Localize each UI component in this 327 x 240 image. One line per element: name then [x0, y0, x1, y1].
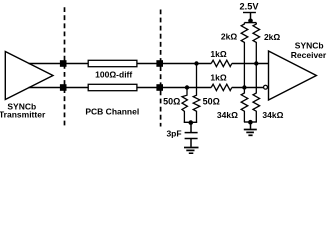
- svg-text:34kΩ: 34kΩ: [217, 110, 238, 120]
- svg-text:Receiver: Receiver: [291, 50, 327, 60]
- svg-text:100Ω-diff: 100Ω-diff: [95, 70, 132, 80]
- resistor R7 34kohm left: [241, 88, 248, 123]
- junction square top-right: [156, 60, 163, 67]
- boundary dashed line right: [160, 10, 162, 127]
- boundary dashed line left: [64, 7, 66, 125]
- svg-text:3pF: 3pF: [166, 129, 181, 139]
- node dot top line bias tap: [254, 61, 258, 65]
- ground symbol right: [244, 130, 257, 136]
- resistor R5 2kohm left: [241, 23, 248, 88]
- svg-text:SYNCb: SYNCb: [295, 41, 324, 51]
- resistor R1 50ohm left: [182, 88, 187, 123]
- capacitor C1 plate 1: [185, 132, 198, 134]
- resistor R6 2kohm right: [253, 23, 260, 64]
- transmitter U1 triangle: [5, 52, 53, 100]
- svg-text:2kΩ: 2kΩ: [264, 32, 280, 42]
- node dot below rail: [248, 19, 253, 24]
- wire bottom line segment 1: [29, 87, 89, 89]
- svg-text:50Ω: 50Ω: [203, 97, 220, 107]
- resistor R2 50ohm right: [193, 64, 200, 123]
- node dot bottom line 50ohm tap: [185, 85, 189, 89]
- receiver U2 triangle: [269, 51, 317, 100]
- svg-text:Transmitter: Transmitter: [0, 109, 46, 119]
- transmission line T1 box top: [88, 60, 137, 66]
- wire junction bar above C1: [184, 121, 198, 123]
- wire split bar to 2k resistors: [244, 22, 256, 24]
- transmission line T2 box bottom: [88, 84, 137, 90]
- ground symbol left: [184, 148, 199, 154]
- inverting input bubble: [264, 85, 268, 89]
- svg-text:PCB Channel: PCB Channel: [85, 106, 139, 116]
- wire top line segment 2: [137, 63, 212, 65]
- junction square top-left: [60, 60, 67, 67]
- capacitor C1 plate 2: [185, 138, 198, 140]
- svg-text:2kΩ: 2kΩ: [221, 31, 237, 41]
- wire junction bar above right ground: [244, 121, 257, 123]
- power rail bar 2.5V: [243, 12, 256, 14]
- svg-text:1kΩ: 1kΩ: [210, 49, 226, 59]
- node dot above C1: [189, 120, 194, 125]
- junction square bottom-right: [156, 84, 163, 91]
- wire bottom line segment 3: [232, 87, 263, 89]
- wire bottom line segment 2: [137, 87, 212, 89]
- svg-text:1kΩ: 1kΩ: [210, 73, 226, 83]
- wire stub C1 to ground: [190, 139, 192, 147]
- node dot above right ground: [248, 120, 253, 125]
- svg-text:34kΩ: 34kΩ: [262, 110, 283, 120]
- svg-text:50Ω: 50Ω: [163, 97, 180, 107]
- wire top line segment 3: [232, 63, 269, 65]
- wire top line segment 1: [29, 63, 89, 65]
- wire stub rail to node: [250, 13, 252, 23]
- svg-text:2.5V: 2.5V: [240, 1, 260, 11]
- resistor R3 1kohm top: [211, 60, 232, 66]
- node dot top line 50ohm tap: [194, 61, 198, 65]
- node dot bottom line bias tap: [242, 85, 246, 89]
- wire stub to right ground: [250, 122, 252, 129]
- junction square bottom-left: [60, 84, 67, 91]
- resistor R8 34kohm right: [253, 64, 260, 123]
- resistor R4 1kohm bottom: [211, 84, 232, 90]
- wire stub to C1: [190, 123, 192, 133]
